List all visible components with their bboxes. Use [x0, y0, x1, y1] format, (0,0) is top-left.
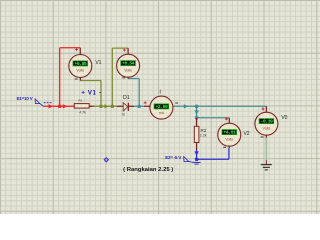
svg-text:+4.61: +4.61 [223, 130, 236, 136]
svg-text:E1=10 V: E1=10 V [17, 96, 33, 101]
svg-text:Volts: Volts [225, 137, 233, 141]
svg-text:Volts: Volts [76, 69, 84, 73]
svg-text:Si: Si [122, 112, 125, 116]
svg-text:-0.39: -0.39 [260, 119, 273, 125]
svg-text:V0: V0 [281, 115, 287, 121]
svg-text:V1: V1 [95, 60, 101, 66]
svg-text:R2: R2 [201, 128, 207, 133]
svg-text:( Rangkaian 2.25 ): ( Rangkaian 2.25 ) [123, 167, 173, 173]
svg-text:V2: V2 [243, 131, 249, 137]
svg-text:D1: D1 [123, 95, 130, 101]
svg-text:mA: mA [159, 111, 165, 115]
svg-text:+2.09: +2.09 [155, 104, 168, 110]
svg-text:+ V1 -: + V1 - [81, 89, 101, 96]
svg-text:4.7k: 4.7k [79, 111, 86, 115]
svg-text:Volts: Volts [124, 68, 132, 72]
svg-text:Volts: Volts [263, 126, 271, 130]
svg-text:R1: R1 [78, 98, 82, 102]
svg-text:2.2k: 2.2k [200, 134, 207, 138]
svg-text:+0.54: +0.54 [122, 61, 135, 67]
svg-text:E2= -5 V: E2= -5 V [165, 155, 181, 160]
svg-text:+9.85: +9.85 [74, 61, 87, 67]
